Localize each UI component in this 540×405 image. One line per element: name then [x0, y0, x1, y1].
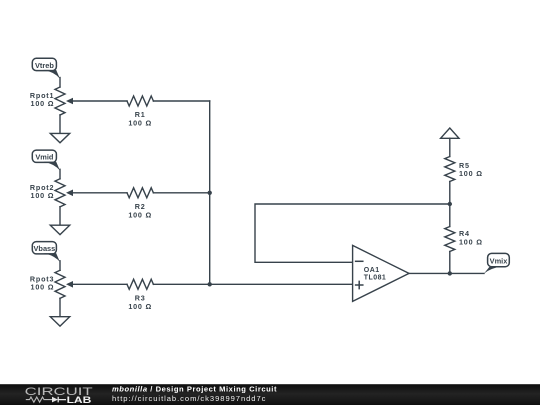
resistor R5	[445, 157, 483, 182]
op-amp OA1	[353, 245, 409, 301]
svg-text:TL081: TL081	[364, 275, 386, 282]
svg-text:http://circuitlab.com/ck398997: http://circuitlab.com/ck398997ndd7c	[112, 394, 266, 403]
wire VCC to R5	[449, 138, 451, 156]
wire R5 to feedback node	[449, 182, 451, 227]
svg-text:Vmix: Vmix	[490, 256, 509, 265]
ground (Rpot3)	[50, 317, 69, 326]
svg-text:100 Ω: 100 Ω	[459, 169, 483, 178]
junction bus/R3	[208, 282, 212, 286]
footer bar	[0, 384, 540, 405]
logo diode	[52, 397, 58, 403]
svg-text:mbonilla / Design Project Mixi: mbonilla / Design Project Mixing Circuit	[112, 384, 277, 393]
wire R4 to output	[449, 252, 451, 274]
svg-text:100 Ω: 100 Ω	[31, 99, 55, 108]
power supply arrow VCC	[441, 128, 459, 138]
resistor R2	[127, 188, 153, 220]
wire summing bus	[209, 101, 211, 284]
wire R3 to op-amp plus input	[153, 283, 352, 285]
resistor R3	[127, 279, 153, 311]
wire feedback	[255, 204, 450, 262]
svg-text:LAB: LAB	[67, 395, 92, 405]
node flag Vmid	[32, 150, 60, 170]
svg-text:OA1: OA1	[364, 267, 380, 274]
svg-text:Vtreb: Vtreb	[35, 61, 54, 70]
svg-text:Vmid: Vmid	[35, 153, 54, 162]
wire Rpot2 wiper to R2	[72, 192, 127, 194]
logo resistor zigzag	[26, 397, 52, 402]
svg-text:100 Ω: 100 Ω	[459, 238, 483, 247]
junction bus/R2	[208, 191, 212, 195]
svg-text:Vbass: Vbass	[34, 244, 56, 253]
node flag Vbass	[32, 242, 60, 262]
potentiometer Rpot3	[30, 261, 73, 317]
junction output/R4	[448, 271, 452, 275]
svg-text:100 Ω: 100 Ω	[31, 191, 55, 200]
node flag Vtreb	[32, 58, 60, 78]
svg-text:100 Ω: 100 Ω	[128, 210, 152, 219]
svg-text:100 Ω: 100 Ω	[128, 302, 152, 311]
wire R2 to bus	[153, 192, 209, 194]
resistor R4	[445, 227, 483, 252]
wire op-amp output	[409, 272, 484, 274]
node flag Vmix	[484, 253, 509, 273]
ground (Rpot1)	[50, 133, 69, 142]
potentiometer Rpot1	[30, 78, 73, 134]
potentiometer Rpot2	[30, 169, 73, 225]
resistor R1	[127, 96, 153, 128]
svg-text:100 Ω: 100 Ω	[128, 119, 152, 128]
svg-text:100 Ω: 100 Ω	[31, 283, 55, 292]
junction feedback node	[448, 202, 452, 206]
wire Rpot1 wiper to R1	[72, 100, 127, 102]
ground (Rpot2)	[50, 225, 69, 234]
wire R1 to bus	[153, 100, 209, 102]
wire Rpot3 wiper to R3	[72, 283, 127, 285]
